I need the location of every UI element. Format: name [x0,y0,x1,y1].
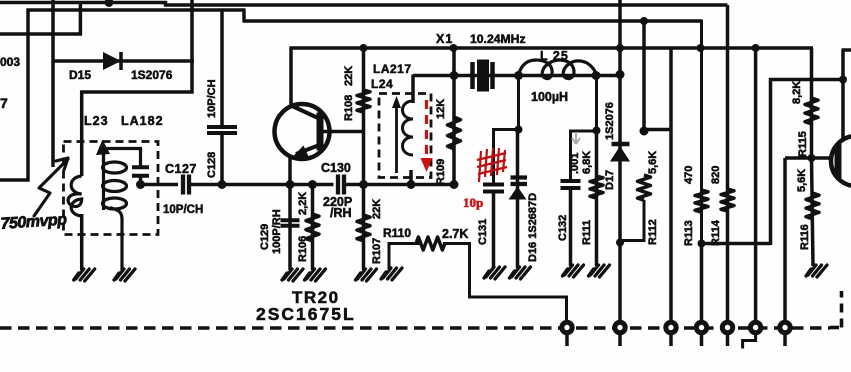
svg-text:R107: R107 [371,238,383,264]
annotation red dashed arrow in L24 [425,100,428,160]
svg-text:C129: C129 [259,224,271,250]
wire D17 node down to connector [618,243,622,328]
ground for R116 [806,265,827,277]
transistor TR20 collector inner stroke [291,106,318,119]
svg-text:100P/RH: 100P/RH [271,209,283,254]
svg-text:2SC1675L: 2SC1675L [256,304,356,324]
wire C132 to ground [569,188,573,266]
capacitor C127 series [181,175,185,195]
svg-text:R110: R110 [383,226,411,240]
svg-text:.001: .001 [569,153,581,174]
connector circle x701 [696,322,706,332]
svg-text:C127: C127 [165,162,197,176]
svg-text:R109: R109 [435,159,447,185]
wire rail D [0,32,82,36]
wire exit right at y50 [842,48,851,52]
svg-text:R113: R113 [683,220,695,246]
inductor L23 secondary tuning arrow [102,150,105,162]
diode D16 triangle [509,187,527,200]
wire base line of right transistor [785,156,833,160]
connector circle x567 [562,322,572,332]
svg-text:10p: 10p [463,195,483,210]
svg-text:5,6K: 5,6K [647,151,659,174]
resistor R110 zigzag [416,237,445,250]
inductor L24 winding [403,101,414,155]
resistor R112 wire lower with corner to D17 node [619,200,644,241]
wire R113 down to connector [700,244,704,328]
wire main line to emitter node [290,183,314,187]
wire main signal line from L23 to C127 [141,183,179,187]
svg-text:C132: C132 [557,215,569,241]
svg-text:R106: R106 [297,236,309,262]
wire rail 1b to the right [164,3,728,7]
capacitor C131 plates [483,183,504,187]
node L23 output junction [136,180,145,189]
svg-text:100µH: 100µH [531,90,568,104]
node L24 bottom junction [407,180,416,189]
connector circle x755 [750,322,760,332]
svg-text:10.24MHz: 10.24MHz [470,32,526,46]
svg-text:22K: 22K [371,199,383,219]
wire step x843 up [841,50,845,81]
wire R110 left lead to ground [389,244,421,270]
resistor R107 branch wire [362,185,366,271]
inductor L23 primary winding [68,176,82,216]
diode D17 [612,142,630,147]
wire bottom dashed line [0,326,830,330]
node R112 top on rail C [640,17,648,25]
ground for R106 [305,269,326,281]
ground for L23 secondary [114,269,135,281]
inductor L24 tuning arrow [395,104,398,173]
resistor R111 zigzag [590,176,603,198]
node R108 top [360,44,368,52]
svg-text:7: 7 [0,95,8,111]
wire bus y243 [700,242,771,246]
inductor L23 secondary winding [102,152,105,210]
svg-text:2.7K: 2.7K [442,227,468,241]
wire x785 down to connector [783,158,787,327]
svg-text:10P/CH: 10P/CH [206,79,218,118]
node crystal right junction [514,71,523,80]
node collector/step junction [839,76,847,84]
wire x770 vertical [769,78,773,245]
node R115/R116 on base line [808,154,816,162]
svg-text:R112: R112 [647,219,659,245]
connector circle x671 [666,322,676,332]
connector circle x620 [615,322,625,332]
capacitor internal to L23 (padder) [132,165,149,169]
wire L23 primary top lead [80,91,84,177]
transformer L23 LA182 dashed box [64,142,159,235]
svg-text:22K: 22K [343,66,355,86]
node C132 jog junction [593,127,601,135]
connector stub below x755 with hook [743,328,756,349]
resistor R109 column wire [452,48,456,185]
ground for C131 [484,267,505,279]
capacitor C130 series [336,175,340,195]
resistor R112 zigzag [638,175,651,200]
connector stub below x567 [565,328,569,347]
wire L24 top lead [411,75,415,104]
capacitor C129 branch wire [288,185,292,271]
svg-text:C128: C128 [206,152,218,178]
wire main line C127 to C128 node [190,183,293,187]
connector stub below x784 [783,328,787,347]
wire R110 right lead to connector 567 [443,244,567,328]
svg-text:820: 820 [710,166,722,184]
wire jog R112 to x671 [644,128,673,132]
node R113 bottom junction [698,240,706,248]
wire L24 bottom lead [409,170,413,186]
svg-text:L24: L24 [371,77,393,91]
wire rail B left corner down [26,9,30,182]
wire exit left at y223 [0,178,30,182]
wire D16 branch [516,130,520,269]
ground for L23 primary [74,269,95,281]
wire D15 anode line [52,59,195,63]
wire rail E collector rail [290,46,814,50]
capacitor C128 [207,125,237,129]
svg-text:8,2K: 8,2K [791,81,803,104]
wire TR20 collector up to rail E [289,47,293,106]
node R109 bottom junction [450,180,459,189]
node R107/R108 junction [359,180,368,189]
node emitter/C129 junction [286,180,295,189]
svg-text:D15: D15 [69,68,91,82]
wire C128 lower lead [220,133,224,185]
wire crystal line y76 [413,74,621,78]
wire rail E corner down to R115 [810,48,814,160]
wire L23 primary to ground [80,214,84,270]
wire vertical x53 from top [51,0,55,167]
resistor R111 wire [595,131,599,267]
connector stub below x620 [618,328,622,347]
svg-text:R116: R116 [799,224,811,250]
wire R113 from rail C corner [700,20,703,244]
node D17 bottom junction [616,239,624,247]
wire right transistor collector [841,80,845,141]
svg-text:LA217: LA217 [373,62,412,76]
inductor L25 coil [519,60,597,79]
diode D15 [103,52,121,70]
ground for R110 left [381,268,402,280]
annotation red scribble crossed out [477,148,507,182]
svg-text:470: 470 [683,166,695,184]
wire rail C [243,19,702,23]
svg-text:12K: 12K [435,99,447,119]
node R109 top feed [450,44,458,52]
svg-text:R115: R115 [797,131,809,157]
connector circle x728 [722,322,732,332]
wire C128 vertical from rail B [220,9,224,126]
node junction dot on rail 1 [105,0,114,7]
node x755 top [752,44,760,52]
wire L23 secondary bottom to ground [110,208,122,271]
svg-text:X1: X1 [436,32,453,46]
svg-text:003: 003 [0,55,20,69]
wire rail1 jog down [164,1,168,6]
node L25 right junction [592,71,601,80]
transistor TR20 base bar [317,113,324,151]
transistor TR20 circle [275,104,330,159]
svg-text:2,2K: 2,2K [297,192,309,215]
wire rail B jog down to rail C [242,10,246,21]
wire C131 jog from crystal node [494,76,519,184]
node R113 top [697,44,705,52]
wire from rail1 down to rail D [79,3,83,36]
svg-text:R111: R111 [581,220,593,245]
wire C132 jog from R111 node [571,76,597,182]
crystal X1 [470,62,475,89]
wire TR20 emitter down to main line [288,155,292,186]
resistor R116 wire [812,158,814,266]
resistor R108 column wire [362,48,366,185]
resistor R116 zigzag [806,193,819,219]
ground for C129 [282,269,303,281]
node crystal line at D17 [616,70,625,79]
svg-text:C131: C131 [477,219,489,245]
capacitor C132 plates [561,179,581,183]
svg-text:1S2076: 1S2076 [131,68,173,82]
resistor R114 zigzag [721,189,734,211]
ground for D16 [510,267,531,279]
svg-text:C130: C130 [321,161,351,175]
wire L23 secondary top bar [104,149,141,167]
wire from internal cap to output node [139,174,143,186]
wire step y92 over L23 [80,90,193,94]
wire main line to C130 [312,183,334,187]
node R112 mid junction [640,127,649,136]
node R109 on crystal line [450,71,459,80]
svg-text:1S2076: 1S2076 [604,102,616,140]
resistor R106 zigzag [306,214,319,241]
svg-text:6,8K: 6,8K [581,151,593,174]
wire R114 from rail 1b corner [726,5,730,327]
node R106 junction [308,180,317,189]
svg-text:L23: L23 [84,114,109,128]
diode D16 varactor double bar [511,175,528,179]
node main line at C128 [218,180,227,189]
transistor Q right circle partial [831,136,851,186]
wire top rail 1 [0,1,167,5]
capacitor C129 plates [281,218,300,222]
svg-text:L 25: L 25 [540,49,569,63]
resistor R109 zigzag [448,117,461,149]
resistor R115 zigzag [805,98,818,124]
ground for R107 [356,269,377,281]
resistor R112 wire upper [642,21,646,132]
svg-text:D17: D17 [604,170,616,190]
svg-text:/RH: /RH [330,206,352,220]
resistor R107 zigzag [357,215,370,241]
connector stub below x728 [726,328,730,347]
annotation faint grey arrow [572,132,580,144]
ground for C132 [563,265,584,277]
wire x755 from rail E to connector [754,48,758,327]
wire dashed corner up at right [840,291,844,328]
transistor Q right base bar [835,144,842,178]
ground for R111 [589,265,610,277]
inductor L24 LA217 dashed box [379,94,431,178]
connector stub below x701 [700,328,704,347]
resistor R106 branch wire [311,185,315,271]
wire C131 to ground [492,191,496,268]
wire vertical x192 from top [190,0,194,94]
wire step y79.5 [769,78,845,82]
transistor TR20 emitter inner stroke with arrow [296,146,318,155]
node D17 crossing rail E [616,44,624,52]
wire x671 from rail E to connector [669,48,673,327]
svg-text:LA182: LA182 [121,114,164,128]
node C131 jog junction [515,126,523,134]
svg-text:D16 1S2687D: D16 1S2687D [527,193,539,262]
resistor R113 zigzag [695,190,708,212]
svg-text:R108: R108 [343,95,355,121]
wire D17 long vertical [618,0,622,244]
annotation squiggly arrow pointing at L23 [34,159,68,216]
wire TR20 base to R108 column [319,130,365,134]
wire rail B [27,8,246,12]
connector circle x784 [780,322,790,332]
svg-text:10P/CH: 10P/CH [163,204,203,216]
svg-text:5,6K: 5,6K [796,169,808,192]
wire main line C130 to R107/R108 node [345,183,457,187]
connector stub below x671 [669,328,673,347]
resistor R108 zigzag [357,90,370,112]
